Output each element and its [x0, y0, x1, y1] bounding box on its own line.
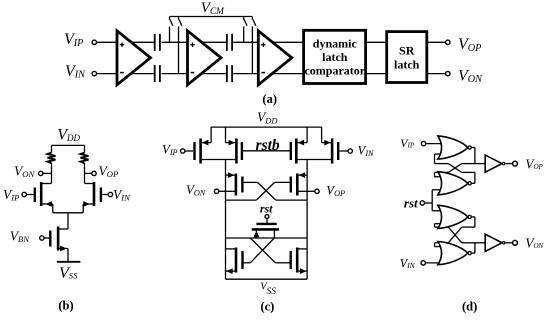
- svg-text:latch: latch: [394, 58, 420, 72]
- svg-text:comparator: comparator: [304, 64, 365, 78]
- svg-text:(d): (d): [462, 300, 477, 314]
- svg-text:rstb: rstb: [256, 137, 280, 154]
- svg-text:latch: latch: [322, 50, 348, 64]
- svg-text:(b): (b): [58, 299, 73, 313]
- svg-text:rst: rst: [260, 202, 273, 216]
- svg-text:dynamic: dynamic: [313, 37, 358, 51]
- svg-text:(a): (a): [262, 92, 277, 106]
- svg-text:(c): (c): [260, 300, 274, 314]
- svg-text:rst: rst: [404, 195, 418, 210]
- svg-text:SR: SR: [399, 44, 415, 58]
